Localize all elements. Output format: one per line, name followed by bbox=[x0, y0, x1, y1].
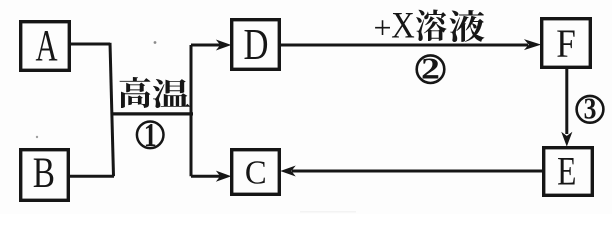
box C bbox=[232, 150, 280, 195]
svg-text:+: + bbox=[373, 10, 391, 46]
circled number ① step 1 bbox=[137, 116, 164, 154]
wire arrow F to E bbox=[565, 69, 568, 134]
svg-text:B: B bbox=[33, 150, 55, 197]
circled number ③ step 3 bbox=[577, 93, 604, 127]
wire arrow into C bbox=[191, 175, 220, 178]
svg-text:F: F bbox=[556, 22, 576, 67]
svg-text:3: 3 bbox=[584, 93, 597, 127]
wire 高温 horizontal line bbox=[111, 112, 194, 115]
circled number ② step 2 bbox=[417, 52, 445, 86]
wire from A right side to junction trunk bbox=[69, 43, 110, 46]
svg-text:C: C bbox=[245, 154, 267, 192]
svg-text:E: E bbox=[557, 149, 576, 193]
svg-text:D: D bbox=[243, 20, 268, 69]
wire arrow D to F bbox=[281, 44, 528, 47]
label 高温 (high temperature) bbox=[120, 77, 191, 108]
svg-text:1: 1 bbox=[144, 116, 157, 154]
svg-text:A: A bbox=[35, 21, 57, 70]
scan speck near A-D wire bbox=[154, 41, 157, 44]
scan speck left of B top bbox=[36, 136, 38, 138]
box B bbox=[21, 150, 69, 201]
svg-text:2: 2 bbox=[421, 52, 440, 86]
box D bbox=[232, 20, 280, 70]
box E bbox=[544, 148, 593, 196]
box A bbox=[21, 22, 70, 71]
box F bbox=[542, 19, 591, 68]
label +X溶液 (+X solution) bbox=[373, 5, 484, 46]
junction trunk vertical (slightly slanted as in scan) bbox=[110, 43, 114, 176]
wire arrow into D bbox=[191, 44, 220, 47]
svg-text:X: X bbox=[391, 5, 415, 46]
wire from B right side to junction trunk bbox=[68, 175, 114, 178]
wire split vertical line bbox=[190, 45, 193, 176]
faint scan smudge bottom edge bbox=[300, 211, 356, 213]
wire arrow E to C bbox=[292, 170, 542, 173]
